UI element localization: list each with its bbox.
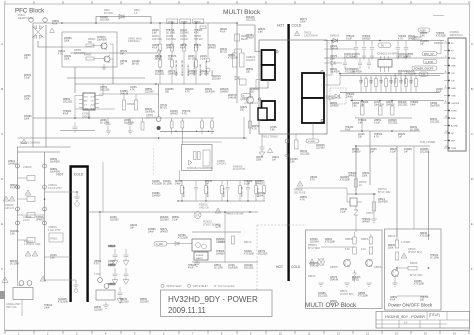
- svg-text:IC896S: IC896S: [404, 149, 412, 151]
- capacitor CP805: [128, 118, 133, 131]
- svg-text:1/4W: 1/4W: [175, 184, 181, 186]
- svg-text:5.6K: 5.6K: [152, 33, 157, 35]
- svg-text:Q886S: Q886S: [374, 266, 382, 269]
- wire into island lower2: [45, 280, 77, 285]
- rail 49: [324, 48, 355, 50]
- svg-text:A: A: [471, 42, 473, 46]
- svg-text:W-OUT HD: W-OUT HD: [233, 168, 245, 171]
- svg-text:4.7K: 4.7K: [185, 92, 190, 94]
- rail 75.5: [340, 75, 440, 77]
- isolation barrier (MULTI block): [287, 24, 289, 281]
- svg-text:KTC3198: KTC3198: [340, 180, 350, 182]
- warning triangle A: [3, 196, 9, 201]
- warning triangle B: [25, 190, 31, 195]
- svg-text:D822S: D822S: [398, 134, 405, 136]
- svg-text:Q816S: Q816S: [130, 225, 138, 227]
- svg-text:47uF: 47uF: [10, 188, 16, 190]
- rail 118 extension: [150, 117, 214, 119]
- svg-text:L839S: L839S: [124, 120, 131, 122]
- warning triangle: [309, 259, 315, 264]
- svg-text:1nF: 1nF: [420, 44, 425, 46]
- svg-text:VIPM EYELET: VIPM EYELET: [166, 285, 182, 288]
- svg-text:13V: 13V: [451, 81, 455, 83]
- wire lozenge links: [437, 41, 441, 54]
- svg-text:D852S: D852S: [258, 29, 265, 31]
- svg-text:KTC3198: KTC3198: [420, 236, 430, 238]
- svg-text:R844S: R844S: [10, 261, 17, 263]
- wire sense2 down: [369, 131, 371, 185]
- ground earth: [103, 302, 109, 309]
- zener ZD881: [353, 270, 357, 282]
- component box on bus: [200, 26, 206, 29]
- svg-text:TP846S: TP846S: [346, 94, 355, 96]
- earth ground in island 2: [74, 285, 79, 292]
- svg-text:5.6K: 5.6K: [50, 258, 55, 260]
- svg-text:2SC2331: 2SC2331: [300, 154, 310, 156]
- svg-text:GND: GND: [451, 118, 456, 120]
- warning triangle C: [25, 251, 31, 256]
- resistor pair R881: [353, 237, 357, 244]
- startup chain 3: [183, 23, 185, 44]
- svg-text:R886S: R886S: [194, 45, 201, 47]
- svg-text:TH801: TH801: [50, 238, 58, 241]
- varistor VZ801: [21, 139, 26, 144]
- svg-text:47uF: 47uF: [436, 92, 442, 94]
- dashed block boundary: [153, 148, 155, 176]
- svg-text:10uF/50V: 10uF/50V: [145, 112, 155, 114]
- svg-text:KTC3198: KTC3198: [178, 238, 188, 240]
- svg-text:LX801S: LX801S: [23, 166, 32, 169]
- svg-text:R833S: R833S: [388, 245, 395, 247]
- svg-text:10uF/50V: 10uF/50V: [228, 268, 238, 270]
- svg-text:W : Not Connection: W : Not Connection: [214, 285, 235, 288]
- svg-text:IC804S: IC804S: [398, 54, 406, 56]
- svg-text:LTV817 B(S): LTV817 B(S): [340, 293, 354, 296]
- svg-text:D891S: D891S: [10, 185, 17, 187]
- capacitor C861: [112, 249, 118, 265]
- svg-text:TP890S: TP890S: [348, 173, 357, 175]
- svg-text:560: 560: [88, 41, 93, 44]
- warning triangle: [50, 28, 55, 32]
- eyelet: [104, 284, 109, 289]
- wire: [347, 194, 362, 202]
- rail bottom cluster: [192, 261, 258, 263]
- svg-text:D855S: D855S: [140, 299, 147, 301]
- svg-text:L813S: L813S: [130, 87, 137, 89]
- rotated labels row: [184, 186, 260, 197]
- svg-text:UF4007: UF4007: [255, 184, 264, 186]
- svg-text:R803S: R803S: [420, 233, 427, 235]
- diode DM802: [335, 94, 340, 98]
- resistor pair R882: [369, 237, 373, 244]
- svg-text:COLD: COLD: [74, 173, 84, 177]
- svg-text:D: D: [471, 177, 473, 181]
- svg-text:C829S: C829S: [64, 56, 71, 58]
- dropper resistors above rail: [170, 118, 213, 134]
- svg-text:RM814: RM814: [371, 77, 373, 84]
- svg-text:TP870S: TP870S: [420, 297, 429, 299]
- rail 2: [324, 57, 444, 59]
- svg-text:CM812: CM812: [361, 77, 363, 84]
- bridge rectifier BD801: [32, 26, 44, 39]
- svg-text:KTC3198: KTC3198: [406, 74, 416, 76]
- svg-text:2SC2331: 2SC2331: [420, 152, 430, 154]
- svg-text:TP808S: TP808S: [155, 71, 164, 73]
- capacitors on rail 58: [343, 58, 347, 69]
- eyelet TPM2: [285, 139, 289, 143]
- svg-text:L811S: L811S: [374, 102, 381, 104]
- wire bridge output: [38, 41, 62, 47]
- svg-text:1K 1/2W: 1K 1/2W: [430, 258, 440, 260]
- svg-text:IC855S: IC855S: [64, 38, 72, 40]
- svg-text:DET: DET: [451, 141, 456, 143]
- svg-text:ZD844S: ZD844S: [398, 102, 407, 104]
- svg-text:COLD: COLD: [291, 265, 301, 269]
- svg-text:R859S: R859S: [246, 69, 253, 71]
- svg-text:BYV26C: BYV26C: [104, 12, 113, 15]
- wire onoff top link: [396, 229, 398, 237]
- svg-text:QM801: QM801: [240, 98, 249, 101]
- scan corner smudge: [0, 291, 5, 299]
- svg-text:C851S: C851S: [8, 161, 15, 163]
- svg-text:ZD820S: ZD820S: [185, 89, 194, 91]
- svg-text:R824S: R824S: [120, 299, 127, 301]
- IC801 PFC controller: [79, 93, 99, 118]
- svg-text:B(YLT): B(YLT): [160, 108, 167, 110]
- wire FET source: [249, 104, 251, 134]
- svg-text:RS803 4.7K: RS803 4.7K: [208, 186, 210, 197]
- wire AC pair: [18, 146, 71, 148]
- svg-text:B(YLT)R02: B(YLT)R02: [308, 247, 320, 250]
- wires to IC: [181, 131, 183, 144]
- svg-text:R860S 3.3K/1W: R860S 3.3K/1W: [226, 213, 244, 216]
- svg-text:IC813S: IC813S: [290, 159, 298, 161]
- svg-text:222/1KV: 222/1KV: [212, 79, 221, 81]
- capacitor C863: [112, 268, 118, 284]
- resistor RP803: [86, 44, 94, 47]
- svg-text:1N4148: 1N4148: [228, 98, 237, 100]
- svg-text:CN810S: CN810S: [244, 265, 253, 267]
- svg-text:KTC3198: KTC3198: [228, 58, 238, 60]
- svg-text:L812S: L812S: [358, 134, 365, 136]
- svg-text:222/1KV: 222/1KV: [145, 92, 154, 94]
- svg-text:222/1KV: 222/1KV: [140, 302, 149, 304]
- svg-text:CM819 104: CM819 104: [395, 73, 397, 84]
- transformer T801 primary winding upper: [262, 50, 276, 65]
- wire: [261, 134, 263, 147]
- svg-text:MULTI Block: MULTI Block: [223, 9, 261, 16]
- title box: [161, 290, 273, 317]
- svg-text:250V 10A: 250V 10A: [6, 306, 17, 309]
- svg-text:104/50V: 104/50V: [216, 254, 225, 256]
- svg-text:UF4007: UF4007: [36, 220, 45, 222]
- svg-text:L820S: L820S: [24, 55, 31, 57]
- transistor QS801: [194, 212, 201, 219]
- svg-text:5.6K: 5.6K: [330, 59, 335, 61]
- wire secondary return: [312, 123, 314, 139]
- resistor R893 horizontal: [408, 267, 417, 271]
- svg-text:R872S: R872S: [120, 51, 127, 53]
- svg-text:1nF: 1nF: [398, 137, 403, 139]
- title block table: [376, 312, 470, 329]
- eyelet EP802: [157, 55, 161, 59]
- svg-text:1K: 1K: [359, 184, 362, 187]
- svg-text:10uF/50V: 10uF/50V: [50, 172, 60, 174]
- svg-text:IC874S: IC874S: [208, 45, 216, 47]
- long wire 212: [88, 211, 258, 213]
- net lozenge A13V: [418, 28, 430, 32]
- svg-text:2R2 FUSE: 2R2 FUSE: [294, 191, 306, 194]
- svg-text:TP880S: TP880S: [244, 181, 253, 183]
- wire AC right down: [44, 152, 46, 281]
- svg-text:UF4007: UF4007: [166, 48, 175, 50]
- svg-text:Q866S: Q866S: [94, 261, 102, 263]
- svg-text:D889S: D889S: [228, 55, 235, 57]
- wire B+ down to bulk: [156, 52, 157, 54]
- svg-text:D890S: D890S: [145, 109, 152, 111]
- rail top: [180, 180, 265, 182]
- svg-text:A_5VM: A_5VM: [425, 61, 433, 64]
- svg-text:4.7K: 4.7K: [194, 33, 199, 35]
- svg-text:104/50V: 104/50V: [330, 106, 339, 108]
- svg-text:104/50V: 104/50V: [188, 74, 197, 76]
- svg-text:C830S: C830S: [108, 261, 115, 263]
- svg-text:10uF/50V: 10uF/50V: [97, 40, 107, 42]
- svg-text:D897S: D897S: [166, 45, 173, 47]
- svg-text:IC864S: IC864S: [170, 111, 178, 113]
- svg-text:C: C: [1, 132, 3, 136]
- svg-text:E: E: [1, 222, 3, 226]
- svg-text:B(YLT) R02: B(YLT) R02: [378, 191, 391, 194]
- box DM804: [240, 79, 247, 85]
- svg-text:GND: GND: [451, 66, 456, 68]
- svg-text:ZD826S: ZD826S: [406, 71, 415, 73]
- svg-text:C830S: C830S: [386, 102, 393, 104]
- transistor QP801: [101, 43, 107, 49]
- svg-text:1N4148: 1N4148: [330, 280, 339, 282]
- svg-text:1K 1/2W: 1K 1/2W: [166, 33, 176, 35]
- svg-text:0.1uF: 0.1uF: [374, 123, 380, 125]
- svg-text:IC803S: IC803S: [344, 54, 352, 56]
- svg-text:1/4W: 1/4W: [44, 308, 50, 310]
- svg-text:TP837S: TP837S: [168, 56, 177, 58]
- earth ground in island: [74, 192, 80, 206]
- capacitor CM809: [260, 147, 265, 149]
- resistor RT801: [232, 236, 235, 244]
- svg-text:D820S: D820S: [205, 89, 212, 91]
- svg-text:CP871: CP871: [366, 212, 374, 215]
- wire IC to rails: [99, 84, 103, 96]
- svg-text:47uF: 47uF: [152, 48, 158, 50]
- capacitor C865: [117, 287, 123, 303]
- resistor R873: [372, 202, 376, 211]
- svg-text:1N4148: 1N4148: [310, 266, 319, 268]
- svg-text:R893S: R893S: [410, 262, 418, 265]
- rail 118: [355, 117, 412, 119]
- svg-text:D860S: D860S: [50, 159, 57, 161]
- svg-text:IC888S: IC888S: [120, 91, 128, 93]
- wire: [142, 118, 144, 122]
- svg-text:ZD815S: ZD815S: [310, 263, 319, 265]
- switcher IC box ICM801: [182, 145, 213, 171]
- svg-text:B: B: [471, 87, 473, 91]
- svg-text:0.1uF: 0.1uF: [108, 264, 114, 266]
- svg-text:TP885S: TP885S: [436, 33, 445, 35]
- resistor RM801: [235, 34, 240, 41]
- svg-text:CN871S: CN871S: [212, 76, 221, 78]
- resistor RP807 vertical: [135, 100, 138, 110]
- rail PFC mid: [33, 117, 150, 119]
- svg-text:5.6K: 5.6K: [10, 234, 15, 236]
- svg-text:2SC2331: 2SC2331: [246, 20, 256, 22]
- dashed diode box DM802: [330, 88, 346, 104]
- svg-text:100K: 100K: [256, 160, 262, 162]
- svg-text:L810S: L810S: [228, 265, 235, 267]
- svg-text:5.6K: 5.6K: [258, 32, 263, 34]
- bulk capacitor CP801: [156, 117, 161, 122]
- svg-text:KTC3198: KTC3198: [152, 184, 162, 186]
- thermistor box: [49, 233, 63, 242]
- svg-text:47uF: 47uF: [63, 114, 69, 116]
- svg-text:ZD802S: ZD802S: [220, 89, 229, 91]
- transformer T801 secondary winding upper: [302, 73, 324, 98]
- svg-text:10uF/50V: 10uF/50V: [205, 92, 215, 94]
- svg-text:47uF: 47uF: [390, 300, 396, 302]
- svg-text:1N4746A: 1N4746A: [152, 38, 162, 41]
- svg-text:UF4007: UF4007: [408, 39, 417, 41]
- svg-text:RM818: RM818: [411, 77, 413, 84]
- warning triangle pair: [297, 181, 303, 186]
- wire: [324, 95, 335, 97]
- svg-text:104/50V: 104/50V: [220, 92, 229, 94]
- rung capacitor CX802: [18, 198, 28, 200]
- wire sec mid: [324, 74, 340, 86]
- svg-text:C861S: C861S: [108, 245, 116, 248]
- svg-text:C834S: C834S: [340, 209, 347, 211]
- wire: [286, 143, 288, 155]
- wire rail131 drops: [361, 118, 363, 131]
- svg-text:R825S: R825S: [252, 126, 259, 128]
- rail 109: [75, 108, 115, 110]
- component drops row: [181, 181, 266, 202]
- svg-text:L882S: L882S: [352, 69, 359, 71]
- svg-text:T-ON: T-ON: [94, 273, 100, 276]
- svg-text:222/1KV: 222/1KV: [120, 302, 129, 304]
- svg-text:13V: 13V: [451, 73, 455, 75]
- wires: [321, 246, 355, 248]
- wire: [351, 96, 353, 101]
- svg-text:C885S: C885S: [374, 120, 381, 122]
- svg-text:0.1uF: 0.1uF: [24, 78, 30, 80]
- svg-text:104/50V: 104/50V: [352, 152, 361, 154]
- svg-text:D834S: D834S: [220, 49, 227, 51]
- svg-text:Q807S: Q807S: [330, 277, 338, 279]
- startup rail: [75, 83, 210, 85]
- svg-text:2SC2331: 2SC2331: [258, 254, 268, 256]
- svg-text:SMPS/5V-M: SMPS/5V-M: [450, 34, 463, 37]
- svg-text:ZD844S: ZD844S: [246, 17, 255, 19]
- capacitor C862: [123, 249, 129, 265]
- svg-text:222/1KV: 222/1KV: [316, 148, 325, 150]
- svg-text:0.1uF: 0.1uF: [200, 59, 206, 61]
- diode DS803: [175, 242, 179, 246]
- svg-text:C822S: C822S: [200, 71, 207, 73]
- svg-text:D856S: D856S: [145, 89, 152, 91]
- svg-text:1nF: 1nF: [370, 152, 375, 154]
- eyelet: [98, 278, 103, 283]
- svg-text:KA431: KA431: [196, 257, 203, 260]
- svg-text:1K 1/2W: 1K 1/2W: [10, 264, 20, 266]
- startup chain 4: [195, 23, 197, 44]
- wire aux drop to onoff: [413, 146, 415, 229]
- svg-text:2SC2331: 2SC2331: [244, 268, 254, 270]
- svg-text:TP818S: TP818S: [188, 265, 197, 267]
- svg-text:CN865S: CN865S: [420, 41, 429, 43]
- net lozenge POWER-ON: [412, 66, 437, 70]
- svg-text:10uF/50V: 10uF/50V: [378, 202, 388, 204]
- svg-text:1nF: 1nF: [120, 54, 125, 56]
- svg-text:CN892S: CN892S: [388, 120, 397, 122]
- svg-text:1N4148: 1N4148: [120, 94, 129, 96]
- svg-text:100K: 100K: [362, 176, 368, 178]
- diagonal transistor Q883: [318, 258, 324, 266]
- svg-text:TP880S: TP880S: [410, 102, 419, 104]
- resistor R871: [354, 179, 358, 187]
- warning triangle: [401, 253, 407, 258]
- svg-text:IC868S: IC868S: [152, 193, 160, 195]
- svg-text:10uF/50V: 10uF/50V: [168, 74, 178, 76]
- capacitor CP804: [106, 118, 111, 131]
- svg-text:2SC2331: 2SC2331: [398, 105, 408, 107]
- wire primary lower: [256, 80, 262, 89]
- svg-text:HV32HD_9DY - POWER: HV32HD_9DY - POWER: [168, 295, 258, 304]
- svg-text:1nF: 1nF: [272, 160, 277, 162]
- fuse holder: [43, 18, 47, 22]
- svg-text:1K 1/2W: 1K 1/2W: [163, 184, 173, 186]
- svg-text:CN843S: CN843S: [58, 299, 67, 301]
- svg-text:TP890S: TP890S: [194, 30, 203, 32]
- IC internal elements: [189, 150, 211, 166]
- svg-text:TP816S: TP816S: [346, 36, 355, 38]
- svg-text:A_ON: A_ON: [156, 243, 163, 246]
- svg-text:0.47uF 275V: 0.47uF 275V: [48, 187, 62, 190]
- svg-text:RP806: RP806: [127, 103, 135, 106]
- svg-text:IC878S: IC878S: [178, 235, 186, 237]
- svg-text:Q862S: Q862S: [330, 46, 338, 48]
- eyelet TP852: [206, 68, 210, 72]
- svg-text:CAUTION HI: CAUTION HI: [304, 34, 318, 37]
- svg-text:100K: 100K: [388, 248, 394, 250]
- svg-text:C844S: C844S: [256, 157, 263, 159]
- dense component band: capacitors and resistors CM/RM row: [359, 76, 417, 93]
- svg-text:L860S: L860S: [100, 120, 107, 122]
- svg-text:R819S: R819S: [220, 29, 227, 31]
- warning triangle: [267, 148, 272, 153]
- bus label box CF802: [167, 19, 178, 24]
- box ICP872: [350, 198, 357, 206]
- transformer T801 secondary winding lower: [302, 98, 324, 123]
- transformer T801 boundary: [259, 40, 327, 134]
- svg-text:RS807 10K: RS807 10K: [242, 186, 244, 197]
- svg-text:HOT: HOT: [277, 24, 285, 28]
- svg-text:222/2KV: 222/2KV: [246, 59, 256, 62]
- svg-text:100K: 100K: [24, 119, 30, 121]
- svg-text:TP832S: TP832S: [430, 255, 439, 257]
- rung 3: [18, 214, 45, 216]
- svg-text:IC802S: IC802S: [196, 255, 204, 257]
- wire PFC drain down: [112, 59, 114, 84]
- svg-text:100K: 100K: [24, 99, 30, 101]
